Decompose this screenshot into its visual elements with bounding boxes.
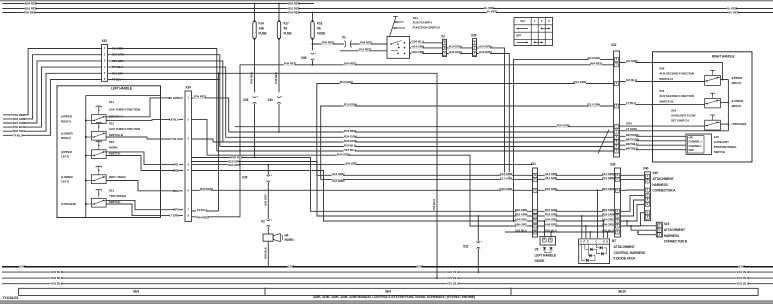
switch S44 actuator lever <box>395 17 397 19</box>
wire fuse F17 to bundle junction <box>278 104 280 132</box>
wire left handle to X34 BRN <box>161 170 184 172</box>
svg-text:X1J GRN: X1J GRN <box>332 172 345 176</box>
svg-text:HARNESS: HARNESS <box>652 183 668 187</box>
wire ground line G01 BLK <box>2 271 773 273</box>
wire left handle to X34 GRY <box>161 209 184 211</box>
svg-text:CK GRN: CK GRN <box>168 96 179 100</box>
wires X21 to X28 rails <box>538 174 615 176</box>
svg-text:G01 BLU: G01 BLU <box>447 270 460 274</box>
svg-text:X21: X21 <box>531 162 537 166</box>
wire horn switch to BRN <box>106 156 160 171</box>
wire X34 out to GRY rail <box>192 120 208 156</box>
wire horn to ground bus <box>267 241 269 267</box>
svg-text:D: D <box>606 239 608 243</box>
switch left-handle unit S11 <box>91 115 106 124</box>
svg-text:X2: X2 <box>261 219 265 223</box>
svg-text:R10 GRN: R10 GRN <box>344 103 357 107</box>
svg-text:G04 BLU: G04 BLU <box>412 40 425 44</box>
svg-text:(LOWER: (LOWER <box>732 99 745 103</box>
wire X32 WHT/GRN to E15 <box>620 140 687 142</box>
svg-text:LEFT HANDLE: LEFT HANDLE <box>535 253 557 257</box>
svg-text:AUXILIARY FLOW: AUXILIARY FLOW <box>671 113 696 117</box>
svg-text:TX1164151: TX1164151 <box>3 296 19 300</box>
svg-text:LT GRN: LT GRN <box>626 127 637 131</box>
svg-text:X34: X34 <box>186 86 192 90</box>
wire two speed to GRY <box>106 200 160 209</box>
wire X33 pin1 to cluster <box>108 49 217 152</box>
svg-text:X39: X39 <box>471 34 477 38</box>
wire X33 pin3 to cluster <box>108 61 223 142</box>
svg-text:ATTACHMENT: ATTACHMENT <box>614 245 635 249</box>
svg-text:R16 GRN: R16 GRN <box>602 208 614 212</box>
wire S44 out 3 <box>410 53 443 55</box>
svg-text:X40: X40 <box>643 167 649 171</box>
wire switch B to LT BLU <box>106 137 160 139</box>
wire X32 GRY to set switch <box>620 125 705 127</box>
svg-text:(LOWER: (LOWER <box>61 175 74 179</box>
svg-text:P14 RED: P14 RED <box>359 47 372 51</box>
switch left-handle unit S13 <box>91 198 106 207</box>
svg-text:1: 1 <box>257 96 259 98</box>
svg-text:P04 RED: P04 RED <box>288 11 301 15</box>
svg-text:X35: X35 <box>242 176 248 180</box>
wire X32 WHT/BLK to E15 <box>620 149 687 151</box>
wire left handle to X34 CK GRN <box>161 97 184 99</box>
wire cluster line 3 <box>213 141 614 143</box>
svg-text:R1J GRN: R1J GRN <box>573 80 586 84</box>
wire A04 ORG riser to X32 <box>514 59 614 221</box>
svg-text:LEFT): LEFT) <box>61 180 69 184</box>
wire left handle to X34 CK BLU <box>161 119 184 121</box>
svg-text:S11: S11 <box>109 100 114 104</box>
wire B04 RED top bus line 1 <box>3 3 315 5</box>
svg-text:WHT/ORG: WHT/ORG <box>626 133 640 137</box>
svg-text:T4 BLU: T4 BLU <box>13 133 23 137</box>
svg-text:1: 1 <box>315 53 317 55</box>
wires X28 to X40 attachment connector <box>621 174 645 176</box>
svg-text:H04 BLK: H04 BLK <box>263 246 267 259</box>
svg-text:ATTACHMENT: ATTACHMENT <box>664 228 685 232</box>
svg-text:H16 GRN: H16 GRN <box>412 50 425 54</box>
node S44 feed junction <box>312 43 314 45</box>
svg-text:14A: 14A <box>259 27 265 31</box>
connector X2 strip <box>443 39 447 56</box>
svg-text:1: 1 <box>271 175 273 177</box>
wire P04 RED top bus line 3 <box>3 12 773 14</box>
svg-text:HARNESS: HARNESS <box>664 234 680 238</box>
top bus labels right-mid <box>484 6 493 9</box>
svg-text:X2: X2 <box>441 34 445 38</box>
svg-text:P04 RED: P04 RED <box>24 11 37 15</box>
wire X33 pin6 <box>108 79 219 81</box>
svg-text:(UPPER: (UPPER <box>732 76 744 80</box>
svg-text:HORN: HORN <box>109 146 118 150</box>
wire H14 GRN rail upper <box>317 84 614 176</box>
svg-text:F14: F14 <box>259 22 264 26</box>
wire G01 BLU rail <box>505 231 615 233</box>
top border bar <box>0 0 773 1</box>
svg-text:G01 BLU: G01 BLU <box>737 270 750 274</box>
svg-text:ORG: ORG <box>173 189 180 193</box>
svg-text:ATTACHMENT: ATTACHMENT <box>652 177 673 181</box>
svg-text:BRN: BRN <box>173 169 179 173</box>
svg-text:P04 RED: P04 RED <box>322 41 335 45</box>
wire cluster line 1 <box>229 131 614 133</box>
wires X33 right side <box>112 47 123 50</box>
svg-text:CK GRN: CK GRN <box>626 59 638 63</box>
svg-text:R24 GRN: R24 GRN <box>344 134 357 138</box>
wire not-used switch to ORG <box>106 181 160 191</box>
wire X34 BRN to bundle <box>192 171 533 222</box>
svg-text:R18 GRN: R18 GRN <box>545 213 557 217</box>
svg-text:H14 GRN: H14 GRN <box>479 45 492 49</box>
svg-text:B7: B7 <box>612 239 616 243</box>
svg-text:OFF: OFF <box>516 34 522 38</box>
svg-text:H4: H4 <box>285 233 289 237</box>
svg-text:CHF: CHF <box>288 265 294 269</box>
svg-text:CONTROL HARNESS: CONTROL HARNESS <box>614 251 646 255</box>
svg-text:S14: S14 <box>659 89 664 93</box>
switch left-handle unit S10 <box>91 150 106 159</box>
connector X21 inline horn <box>267 219 271 220</box>
svg-text:FUSE: FUSE <box>284 32 292 36</box>
svg-text:SE4: SE4 <box>385 290 391 294</box>
node A04 ORG horn junction <box>228 164 239 167</box>
svg-text:X1J GRN: X1J GRN <box>332 179 345 183</box>
svg-text:R18 GRN: R18 GRN <box>515 213 527 217</box>
wire left handle to X34 ORG <box>161 190 184 192</box>
svg-text:R10 GRN: R10 GRN <box>545 187 557 191</box>
svg-text:AUXILIARY: AUXILIARY <box>714 140 729 144</box>
wire X34 GRY out <box>192 210 219 212</box>
svg-text:R10 GRN: R10 GRN <box>200 187 213 191</box>
top bus labels left <box>25 2 36 5</box>
svg-text:(TRIGGER): (TRIGGER) <box>61 202 76 206</box>
svg-text:P24 RED: P24 RED <box>194 95 207 99</box>
wire ground line G01 BLK lower <box>2 283 773 285</box>
wire second feed to S44 <box>340 50 387 52</box>
svg-text:RIGHT): RIGHT) <box>61 136 71 140</box>
node fuse F18 tap <box>312 12 314 14</box>
wire GRY rail y126 <box>235 126 614 128</box>
svg-text:5A: 5A <box>284 27 289 31</box>
svg-text:P04 RED: P04 RED <box>284 62 297 66</box>
svg-text:3: 3 <box>548 19 550 23</box>
svg-text:V6: V6 <box>535 248 539 252</box>
node fuse F17 tap <box>278 3 280 5</box>
svg-text:LT BLU: LT BLU <box>170 137 179 141</box>
connector X22 inline <box>477 216 479 242</box>
svg-text:C: C <box>596 239 598 243</box>
svg-text:R24 GRN: R24 GRN <box>337 152 350 156</box>
svg-text:A: A <box>580 239 582 243</box>
svg-text:AUX FOURTH: AUX FOURTH <box>413 21 433 25</box>
svg-text:RIGHT): RIGHT) <box>732 104 742 108</box>
svg-text:AUX THIRD FUNCTION: AUX THIRD FUNCTION <box>109 107 140 111</box>
svg-text:1: 1 <box>281 96 283 98</box>
svg-text:H16 GRN: H16 GRN <box>479 50 492 54</box>
diode pack B7 internal wires <box>582 244 585 260</box>
svg-text:R24 BLK: R24 BLK <box>344 144 357 148</box>
wire fuse F18 output down <box>312 40 314 51</box>
svg-text:R1J GRN: R1J GRN <box>587 103 600 107</box>
svg-text:G01 BLK: G01 BLK <box>51 282 64 286</box>
svg-text:X30: X30 <box>268 98 274 102</box>
connector X08 inline <box>311 53 315 54</box>
svg-text:SWITCH B: SWITCH B <box>109 133 124 137</box>
wire cluster line 2 <box>226 136 614 138</box>
footer section bar <box>19 288 759 295</box>
wire X34 out LT BLU long <box>192 139 214 142</box>
wire X33 pin4 to cluster <box>108 67 226 137</box>
wire cluster line 5 <box>217 150 614 152</box>
svg-text:GRY: GRY <box>626 122 633 126</box>
box RIGHT HANDLE <box>653 52 753 162</box>
switch left-handle unit S12 <box>91 131 106 140</box>
svg-text:P+ RED: P+ RED <box>729 11 740 15</box>
wire fuse F17 output down <box>278 40 280 93</box>
connector X35 inline <box>267 165 269 175</box>
svg-text:R10 GRN: R10 GRN <box>602 187 614 191</box>
wire R24 GRN rail <box>207 155 533 226</box>
wire X34 LT GRN out <box>192 65 241 217</box>
wires B7 feeds <box>581 216 583 238</box>
connector X21 strip <box>533 168 538 237</box>
svg-text:B04 RED: B04 RED <box>288 2 301 6</box>
svg-text:AUX SECOND FUNCTION: AUX SECOND FUNCTION <box>659 94 694 98</box>
connector X40 strip <box>644 172 650 221</box>
svg-text:X08: X08 <box>301 56 307 60</box>
svg-text:X19: X19 <box>664 222 670 226</box>
box LEFT HANDLE inner <box>85 96 87 218</box>
wire left handle to X34 YEL <box>161 164 184 166</box>
wire X1J GRN rail 2 <box>321 178 533 180</box>
wire X32 LT GRN common return <box>620 130 729 132</box>
wire X32 WHT/BLU to E15 <box>620 144 687 146</box>
svg-text:GND: GND <box>689 149 695 152</box>
svg-text:RIGHT HANDLE: RIGHT HANDLE <box>712 55 735 59</box>
wire X34 out P24 RED <box>192 98 229 132</box>
wire X32 WHT/ORG to E15 <box>620 135 687 137</box>
wire X33 pin5 T4 BLU junction <box>108 72 219 74</box>
svg-text:LEFT HANDLE: LEFT HANDLE <box>111 87 132 91</box>
svg-text:P+ RED: P+ RED <box>487 10 498 14</box>
wire V6 P feed <box>544 221 546 237</box>
svg-text:P04 RED: P04 RED <box>590 62 603 66</box>
svg-text:A04 ORG: A04 ORG <box>228 163 241 167</box>
svg-text:X22: X22 <box>463 245 469 249</box>
wire fuse F14 output down <box>254 40 256 93</box>
svg-text:G: G <box>647 180 649 183</box>
svg-text:LEFT): LEFT) <box>61 155 69 159</box>
wire fuse F18 to P04 RED rail <box>312 60 314 65</box>
svg-text:1: 1 <box>271 219 273 221</box>
svg-text:A06 ORG: A06 ORG <box>545 223 558 227</box>
svg-text:2: 2 <box>541 19 543 23</box>
svg-text:FUNCTION SWITCH: FUNCTION SWITCH <box>413 25 441 29</box>
svg-text:F18: F18 <box>317 22 322 26</box>
svg-text:SWITCH B: SWITCH B <box>659 99 674 103</box>
connector X1 inline <box>345 40 346 47</box>
svg-text:R16 GRN: R16 GRN <box>545 208 557 212</box>
svg-text:T4 BLU: T4 BLU <box>197 208 208 212</box>
wire X2 to X39 line 1 <box>447 47 473 49</box>
wire cluster line 4 <box>220 146 614 148</box>
wire left handle to X34 LT BLU <box>161 138 184 140</box>
svg-text:X1J GRN: X1J GRN <box>602 176 614 180</box>
svg-text:G02 BLU: G02 BLU <box>737 276 750 280</box>
svg-text:E15: E15 <box>714 135 719 139</box>
wire right-handle common vertical <box>727 80 729 131</box>
svg-text:S13: S13 <box>109 189 114 193</box>
svg-text:X1J GRN: X1J GRN <box>545 176 557 180</box>
svg-text:GRY: GRY <box>173 208 179 212</box>
wire Y-bundle 2 <box>192 162 533 217</box>
connector X39 strip <box>473 39 477 57</box>
wire X2 to X39 line 2 <box>447 53 473 55</box>
svg-text:CK BLU: CK BLU <box>169 118 179 122</box>
diode pack B7 diodes <box>590 248 593 251</box>
svg-text:F17: F17 <box>284 22 289 26</box>
connector X34 strip <box>185 91 192 222</box>
svg-text:S28: S28 <box>659 66 664 70</box>
bundle slash mark <box>598 130 609 154</box>
diode pack B7 box <box>579 239 610 264</box>
svg-text:318E, 319E, 320E, 324E, 328E M: 318E, 319E, 320E, 324E, 328E MANUAL CONT… <box>313 295 475 299</box>
svg-text:FUSE: FUSE <box>259 32 267 36</box>
wires into X19 <box>627 221 656 226</box>
top bus labels right <box>727 7 736 10</box>
wire S44 out 1 <box>410 42 443 44</box>
wire left handle to X34 LT GRN <box>161 215 184 217</box>
svg-text:CHF: CHF <box>20 265 26 269</box>
svg-text:P24 RED: P24 RED <box>344 129 357 133</box>
wires X33 left staircase to edge labels <box>3 49 102 115</box>
svg-text:AUX SECOND FUNCTION: AUX SECOND FUNCTION <box>659 72 694 76</box>
svg-text:DIODE: DIODE <box>535 259 546 263</box>
svg-text:YEL: YEL <box>174 163 180 167</box>
svg-text:S18: S18 <box>671 108 676 112</box>
svg-text:S44: S44 <box>413 16 419 20</box>
svg-text:RIGHT): RIGHT) <box>732 81 742 85</box>
svg-text:G01 BLK: G01 BLK <box>51 270 64 274</box>
wire P04 RED to X1 <box>313 43 345 45</box>
wire X32 CK GRN to switch A upper contact <box>620 63 723 80</box>
svg-text:G: G <box>534 189 536 192</box>
wire ground line G02 BLU <box>2 277 773 279</box>
wire X1 to S44 <box>350 43 387 45</box>
svg-text:T04 BLU: T04 BLU <box>432 199 436 210</box>
svg-text:G01 BLU: G01 BLU <box>447 282 460 286</box>
svg-text:A06 ORG: A06 ORG <box>515 223 528 227</box>
svg-text:WHT/BLU: WHT/BLU <box>626 142 639 146</box>
wire Y-bundle 1 <box>192 158 533 212</box>
svg-text:WHT/BLK: WHT/BLK <box>626 147 640 151</box>
wire B01 RED top bus line 2 <box>3 8 773 10</box>
connector X32 strip <box>614 51 620 157</box>
wire X33 pin2 to cluster <box>108 55 220 147</box>
svg-text:A04 GRY: A04 GRY <box>263 194 267 206</box>
wire X32 LT BLU to switch B <box>620 103 705 105</box>
svg-text:R16 GRN: R16 GRN <box>515 208 527 212</box>
wire X39 out 2 down <box>477 54 510 180</box>
labels lower bundle before X21 <box>516 208 527 211</box>
bottom border line <box>0 300 773 302</box>
svg-text:TWO SPEED: TWO SPEED <box>109 194 127 198</box>
svg-text:HORN: HORN <box>285 238 295 242</box>
svg-text:H16 GRN: H16 GRN <box>449 50 462 54</box>
wire X34 ORG to bundle <box>192 189 533 191</box>
svg-text:CHANNEL 2: CHANNEL 2 <box>689 145 703 148</box>
wire X22 to ground bus <box>477 249 479 273</box>
svg-text:G01 BLU: G01 BLU <box>737 282 750 286</box>
svg-text:X40: X40 <box>652 171 658 175</box>
svg-text:(UPPER: (UPPER <box>61 150 73 154</box>
svg-text:1: 1 <box>534 19 536 23</box>
svg-text:R14 GRN: R14 GRN <box>340 80 353 84</box>
svg-text:5 DIODE PACK: 5 DIODE PACK <box>614 257 637 261</box>
svg-text:LT GRN: LT GRN <box>169 214 179 218</box>
wire V6 N feed <box>550 232 552 237</box>
svg-text:B04 RED: B04 RED <box>344 62 357 66</box>
svg-text:SE16: SE16 <box>618 290 626 294</box>
wire fuse F14 to bundle <box>254 104 256 158</box>
svg-text:CHF: CHF <box>739 265 745 269</box>
connector X33 strip <box>102 45 108 82</box>
svg-text:X28: X28 <box>610 163 616 167</box>
wire X39 out 1 down <box>477 48 505 175</box>
svg-text:S44: S44 <box>520 19 525 23</box>
table S44 positions <box>514 18 553 46</box>
svg-text:P04 RED: P04 RED <box>360 41 373 45</box>
fuse F18 <box>311 22 314 39</box>
connector X36 inline <box>253 96 257 97</box>
svg-text:5A: 5A <box>317 27 322 31</box>
connector X19 strip attachment harness connector B <box>656 222 662 237</box>
svg-text:H14 GRN: H14 GRN <box>449 45 462 49</box>
wire X34 YEL A04 ORG rail <box>192 164 533 166</box>
svg-text:A04 ORG: A04 ORG <box>515 218 528 222</box>
svg-text:S10: S10 <box>109 140 114 144</box>
wire two speed to LT GRN <box>106 204 160 216</box>
svg-text:A04 ORG: A04 ORG <box>545 218 558 222</box>
fuse F14 <box>253 22 256 39</box>
svg-text:X1: X1 <box>342 36 346 40</box>
wire ground bus CHS heavy <box>2 266 773 268</box>
svg-text:LT BLU: LT BLU <box>626 101 637 105</box>
svg-text:H14 GRN: H14 GRN <box>412 45 425 49</box>
wire X1J GRN rail 1 <box>317 174 533 176</box>
svg-text:P04 RED: P04 RED <box>197 216 210 220</box>
pot E15 auxiliary proportional switch <box>686 134 712 155</box>
svg-text:R18 GRN: R18 GRN <box>602 213 614 217</box>
svg-text:(LOWER: (LOWER <box>61 131 74 135</box>
wire T4 BLU rail <box>219 73 438 278</box>
svg-text:G: G <box>617 189 619 192</box>
svg-text:R24 GRN: R24 GRN <box>557 123 570 127</box>
wire rail y106 <box>321 106 614 179</box>
svg-text:R26 GRN: R26 GRN <box>344 139 357 143</box>
node fuse F14 tap <box>254 3 256 5</box>
svg-text:SE4: SE4 <box>133 290 139 294</box>
svg-text:WHT/GRN: WHT/GRN <box>626 138 639 142</box>
svg-text:CHF: CHF <box>417 265 423 269</box>
svg-text:R10 GRN: R10 GRN <box>499 187 512 191</box>
connector X30 inline <box>277 96 281 97</box>
svg-text:G02 BLU: G02 BLU <box>447 276 460 280</box>
svg-text:A04 ORG: A04 ORG <box>345 161 358 165</box>
diode pack V6 LEFT HANDLE DIODE <box>540 237 556 246</box>
